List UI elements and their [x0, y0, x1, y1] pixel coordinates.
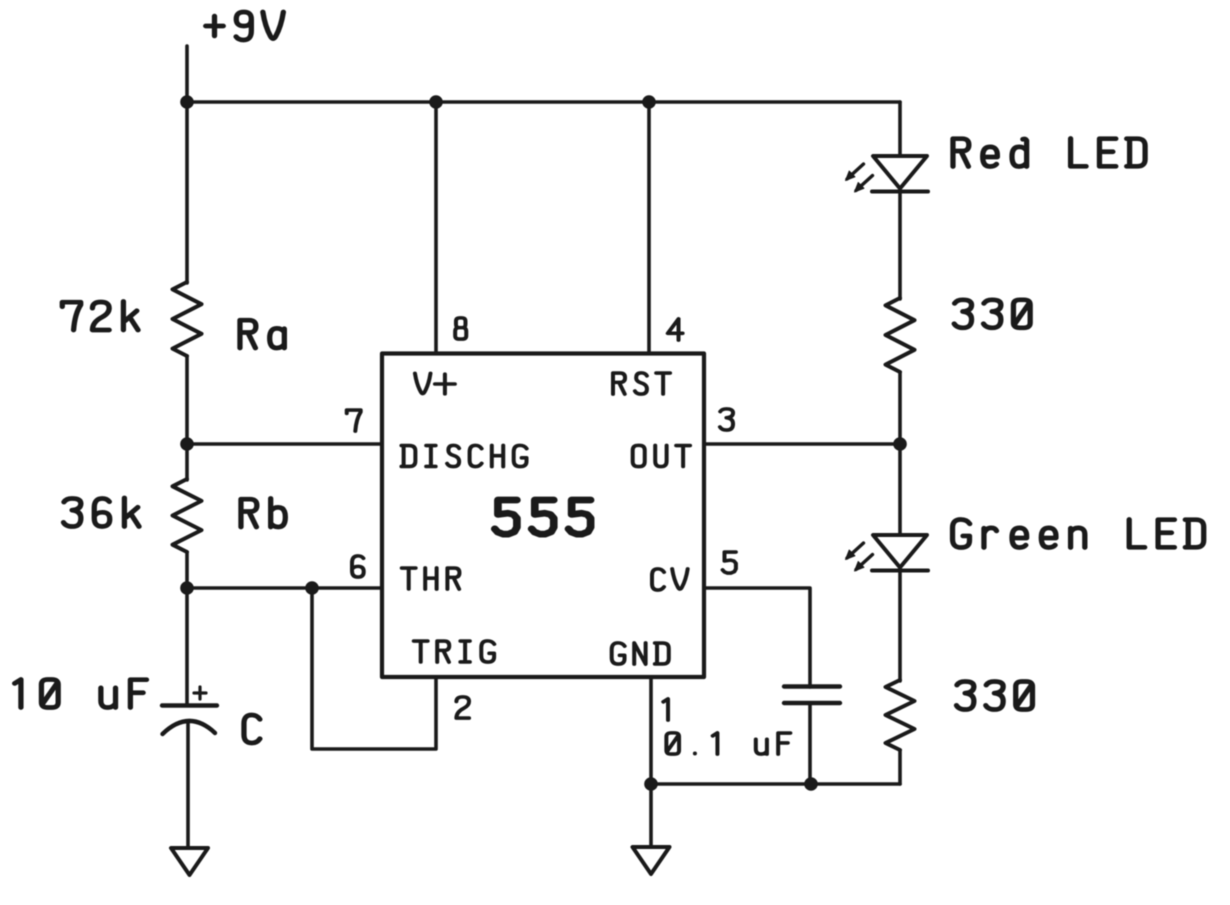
pin label GND — [612, 643, 669, 664]
label 555 — [495, 500, 591, 534]
label C — [244, 715, 260, 743]
LED D1 red — [846, 156, 929, 192]
pin label TRIG — [414, 641, 495, 662]
wire pin 1 GND — [649, 677, 653, 784]
label Red LED — [953, 139, 1145, 167]
pin number 3 — [720, 409, 733, 430]
pin label RST — [613, 373, 670, 394]
junction bottom rail / ground — [644, 777, 658, 791]
pin label V+ — [415, 373, 455, 393]
junction THR node at Rb/C — [180, 581, 194, 595]
junction THR / TRIG tie — [305, 581, 319, 595]
capacitor C top plate — [162, 703, 217, 707]
node +9V supply label — [206, 12, 284, 40]
wire pin 7 DISCHG — [187, 442, 382, 446]
pin number 6 — [352, 556, 364, 577]
wire capacitor C to ground — [186, 722, 190, 848]
capacitor C2 0.1uF bottom plate — [784, 701, 840, 705]
pin number 1 — [663, 699, 668, 720]
label Rb — [241, 498, 285, 527]
capacitor C2 0.1uF top plate — [784, 684, 840, 688]
wire top rail down to resistor Ra — [185, 102, 189, 283]
value label 330 (R2) — [956, 682, 1032, 710]
wire R1 to OUT node — [898, 372, 902, 444]
pin number 2 — [456, 697, 469, 718]
capacitor C curved plate — [163, 721, 216, 734]
wire ground stub — [649, 784, 653, 847]
value label 10 uF — [15, 680, 147, 708]
resistor Ra — [173, 282, 202, 356]
wire pin 3 OUT — [704, 442, 900, 446]
wire +9V lead into top rail — [185, 46, 189, 102]
wire top power rail — [187, 100, 900, 104]
IC 555 body U1 — [382, 354, 704, 678]
wire top rail to Red LED — [898, 102, 902, 156]
wire TRIG tie down and across to pin 2 — [312, 588, 436, 749]
junction bottom rail / C2 — [804, 777, 818, 791]
ground symbol bottom — [633, 847, 670, 874]
capacitor C polarity + — [194, 687, 206, 699]
wire pin 8 V+ — [434, 102, 438, 354]
pin label OUT — [633, 445, 690, 466]
label Ra — [240, 320, 284, 348]
junction top rail / pin 8 branch — [429, 95, 443, 109]
wire C2 to bottom rail — [808, 703, 812, 784]
pin label THR — [402, 568, 460, 589]
ground symbol left — [171, 848, 208, 875]
wire bottom rail — [651, 782, 900, 786]
pin number 8 — [455, 318, 466, 339]
junction top rail / Ra branch — [180, 95, 194, 109]
value label 72k — [62, 301, 138, 330]
wire Rb to capacitor C / THR node — [185, 552, 189, 705]
pin label DISCHG — [401, 445, 526, 466]
junction OUT node — [893, 437, 907, 451]
resistor R2 330 — [886, 680, 915, 750]
wire OUT node to Green LED — [898, 444, 902, 535]
junction pin 7 node — [180, 437, 194, 451]
wire pin 6 THR — [187, 586, 382, 590]
wire Green LED to R2 — [898, 571, 902, 682]
value label 36k — [63, 498, 139, 527]
wire Red LED to R1 — [898, 192, 902, 300]
wire R2 to bottom rail — [898, 750, 902, 784]
wire Ra to Rb / pin7 node — [185, 356, 189, 480]
wire pin 5 CV — [704, 588, 810, 687]
LED D2 green — [846, 535, 929, 571]
pin number 7 — [347, 410, 361, 431]
junction top rail / pin 4 branch — [642, 95, 656, 109]
resistor R1 330 — [886, 298, 915, 372]
wire pin 4 RST — [647, 102, 651, 354]
value label 0.1 uF — [666, 733, 790, 754]
pin number 5 — [723, 552, 736, 573]
pin number 4 — [668, 319, 683, 340]
pin label CV — [652, 569, 688, 590]
resistor Rb — [173, 479, 202, 552]
value label 330 (R1) — [954, 300, 1030, 328]
label Green LED — [953, 520, 1204, 548]
